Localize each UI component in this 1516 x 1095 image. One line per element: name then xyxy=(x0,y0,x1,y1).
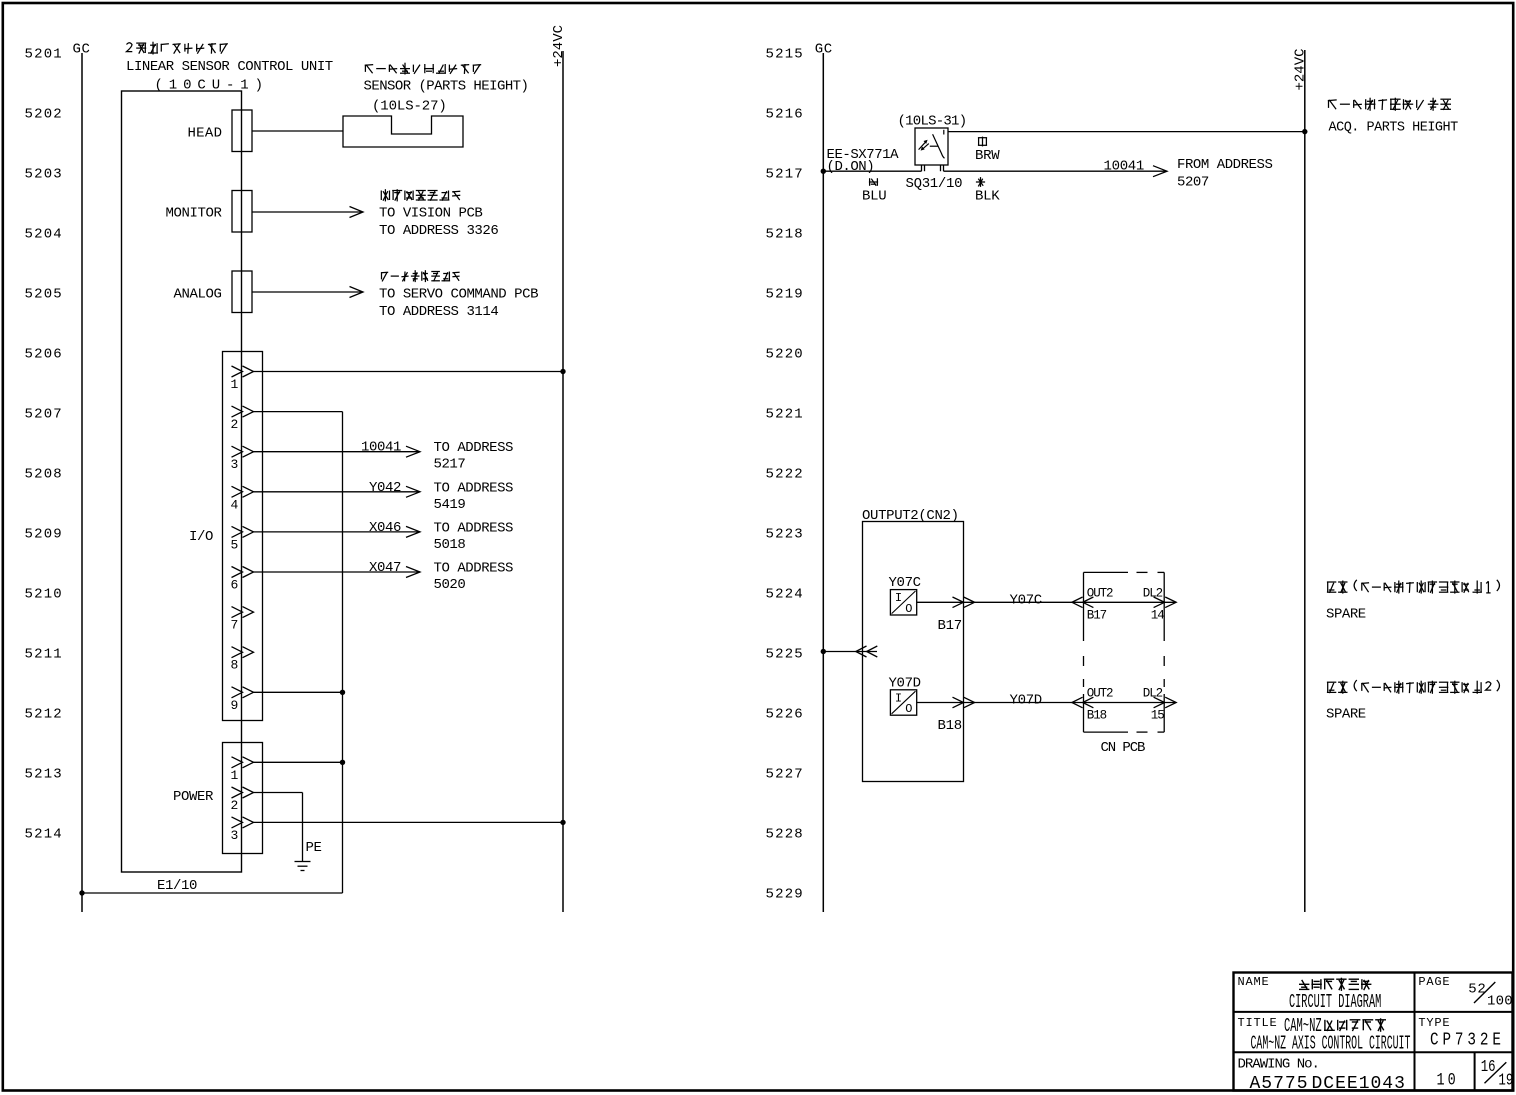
svg-text:10041: 10041 xyxy=(1104,158,1145,174)
label TO ADDRESS 3114 xyxy=(379,304,498,320)
label SPARE (Y07D) xyxy=(1326,707,1366,723)
wire I/O pin1 to +24VC xyxy=(254,371,564,373)
svg-text:5: 5 xyxy=(231,537,239,552)
svg-text:5222: 5222 xyxy=(766,467,804,483)
svg-text:LINEAR SENSOR CONTROL UNIT: LINEAR SENSOR CONTROL UNIT xyxy=(126,59,333,75)
label SPARE (Y07C) xyxy=(1326,606,1366,622)
svg-text:5018: 5018 xyxy=(434,537,466,553)
wire GC bus left vertical xyxy=(81,53,83,912)
svg-text:Y07C: Y07C xyxy=(1010,592,1042,608)
pin number 2 label (POWER) xyxy=(231,798,239,813)
label DCEE1043 part2 xyxy=(1312,1074,1406,1094)
svg-text:MONITOR: MONITOR xyxy=(165,206,222,222)
label ACQ. PARTS HEIGHT xyxy=(1329,121,1459,136)
label spare signal Y07D (JP) xyxy=(1327,680,1500,694)
svg-text:5209: 5209 xyxy=(25,527,63,543)
svg-text:5210: 5210 xyxy=(25,587,63,603)
ground PE symbol xyxy=(295,862,311,871)
pin 3 chevron of I/O connector xyxy=(232,446,254,457)
wire +24VC bus right vertical xyxy=(1304,50,1306,912)
label CIRCUIT DIAGRAM xyxy=(1289,991,1381,1013)
svg-text:A5775: A5775 xyxy=(1250,1074,1309,1094)
svg-text:Y042: Y042 xyxy=(369,480,401,496)
svg-text:4: 4 xyxy=(231,497,239,512)
svg-text:FROM ADDRESS: FROM ADDRESS xyxy=(1177,157,1272,173)
pin number 4 label (I/O) xyxy=(231,497,239,512)
svg-text:5204: 5204 xyxy=(25,227,63,243)
label 10041 (right) xyxy=(1104,158,1145,174)
svg-text:19: 19 xyxy=(1498,1072,1513,1090)
label X047 xyxy=(369,560,401,576)
junction dot sensor wire at GC xyxy=(821,169,826,174)
node GC (right) label xyxy=(815,42,833,58)
pin 3 chevron of POWER connector xyxy=(232,817,254,828)
pin chevron CN PCB B18 (<<) xyxy=(1072,697,1094,708)
label TO VISION PCB xyxy=(379,206,482,222)
module CN PCB dashed box xyxy=(1084,572,1165,732)
label TO ADDRESS (pin6) xyxy=(434,561,514,577)
label black (JP) xyxy=(976,177,985,187)
label B18 (OUTPUT2 pin) xyxy=(938,718,962,734)
label B17 (OUTPUT2 pin) xyxy=(938,618,962,634)
wire MONITOR out xyxy=(252,211,362,213)
svg-text:10041: 10041 xyxy=(361,440,401,456)
junction dot POWER pin1 xyxy=(340,760,345,765)
svg-text:2: 2 xyxy=(231,798,239,813)
svg-text:I: I xyxy=(895,691,902,705)
svg-text:5225: 5225 xyxy=(766,647,804,663)
label B17 (CN PCB pin) xyxy=(1087,608,1107,622)
svg-text:(10LS-31): (10LS-31) xyxy=(898,114,967,130)
label vision pcb (JP) xyxy=(381,189,460,201)
label PAGE xyxy=(1418,975,1450,989)
svg-text:DL2: DL2 xyxy=(1143,586,1163,600)
svg-text:PAGE: PAGE xyxy=(1418,975,1450,989)
svg-text:5227: 5227 xyxy=(766,767,804,783)
pin foot left of sensor xyxy=(922,165,925,171)
label 10041 xyxy=(361,440,401,456)
label OUT2 (Y07C) xyxy=(1087,586,1113,600)
svg-text:PE: PE xyxy=(306,840,322,856)
pin chevron CN PCB B17 (<<) xyxy=(1072,597,1094,608)
label SENSOR (PARTS HEIGHT) xyxy=(364,79,529,95)
svg-text:TITLE: TITLE xyxy=(1238,1016,1278,1030)
label spare signal Y07C (JP) xyxy=(1327,580,1500,594)
label 5020 (pin6) xyxy=(434,577,466,593)
svg-text:5223: 5223 xyxy=(766,527,804,543)
svg-text:14: 14 xyxy=(1151,608,1164,622)
label 5217 (pin3) xyxy=(434,457,466,473)
svg-text:3: 3 xyxy=(231,457,239,472)
svg-text:O: O xyxy=(905,602,912,616)
label CP732E xyxy=(1430,1029,1505,1050)
label BLU xyxy=(862,189,886,205)
svg-text:OUT2: OUT2 xyxy=(1087,687,1113,701)
svg-text:ANALOG: ANALOG xyxy=(173,287,221,303)
slash rev xyxy=(1485,1062,1507,1083)
title block frame xyxy=(1234,973,1513,1091)
label brown (JP) xyxy=(978,137,987,147)
pin 7 chevron of I/O connector xyxy=(232,607,254,618)
svg-text:(D.ON): (D.ON) xyxy=(827,159,875,175)
label FROM ADDRESS xyxy=(1177,157,1272,173)
svg-text:SENSOR (PARTS HEIGHT): SENSOR (PARTS HEIGHT) xyxy=(364,79,529,95)
label rev 16 xyxy=(1481,1059,1496,1077)
label B18 (CN PCB pin) xyxy=(1087,709,1107,723)
wire sensor right pin to 10041 arrow xyxy=(944,170,1168,172)
label 5207 xyxy=(1177,175,1209,191)
pin number 3 label (I/O) xyxy=(231,457,239,472)
label TO ADDRESS 3326 xyxy=(379,223,498,239)
label TITLE xyxy=(1238,1016,1278,1030)
arrow 10041 to address xyxy=(1153,166,1167,177)
svg-text:5224: 5224 xyxy=(766,587,804,603)
label Y042 xyxy=(369,480,401,496)
wire E1/10 vertical xyxy=(342,412,344,893)
svg-text:NAME: NAME xyxy=(1238,975,1270,989)
svg-text:(10LS-27): (10LS-27) xyxy=(372,99,447,115)
label 14 (CN PCB pin) xyxy=(1151,608,1164,622)
svg-text:OUT2: OUT2 xyxy=(1087,586,1113,600)
svg-text:CN PCB: CN PCB xyxy=(1101,740,1146,756)
right rung line numbers 5215-5229 xyxy=(766,47,804,903)
wire Y07D to CN PCB xyxy=(917,702,1176,704)
svg-text:I/O: I/O xyxy=(189,529,213,545)
label TO ADDRESS (pin4) xyxy=(434,480,514,496)
title kanji axis control circuit (JP) xyxy=(1324,1018,1386,1032)
wire I/O pin4 signal Y042 xyxy=(254,491,421,493)
arrow ANALOG out xyxy=(350,287,364,298)
svg-text:TO ADDRESS 3326: TO ADDRESS 3326 xyxy=(379,223,498,239)
svg-text:X047: X047 xyxy=(369,560,401,576)
svg-text:TO ADDRESS: TO ADDRESS xyxy=(434,561,514,577)
wire +24VC bus left vertical xyxy=(562,51,564,912)
wire I/O pin5 signal X046 xyxy=(254,531,421,533)
label MONITOR xyxy=(165,206,222,222)
junction dot E1/10 at GC xyxy=(79,890,84,895)
label 2-jigen linear sensor (JP) xyxy=(127,42,228,55)
svg-text:5221: 5221 xyxy=(766,407,804,423)
pin chevron CN PCB 15 (>>) xyxy=(1154,697,1177,708)
svg-text:7: 7 xyxy=(231,618,239,633)
junction dot OUTPUT2 feed at GC xyxy=(821,649,826,654)
svg-text:6: 6 xyxy=(231,578,239,593)
label EE-SX771A xyxy=(827,147,900,163)
label (10CU-1) xyxy=(155,77,269,93)
svg-text:2: 2 xyxy=(231,417,239,432)
label A5775 part1 xyxy=(1250,1074,1309,1094)
svg-text:CAM~NZ AXIS CONTROL CIRCUIT: CAM~NZ AXIS CONTROL CIRCUIT xyxy=(1251,1032,1411,1055)
wire Y07C to CN PCB xyxy=(917,601,1176,603)
I/O element Y07C label xyxy=(889,575,921,591)
svg-text:CIRCUIT DIAGRAM: CIRCUIT DIAGRAM xyxy=(1289,991,1381,1013)
label SQ31/10 xyxy=(906,176,963,192)
svg-text:5211: 5211 xyxy=(25,647,63,663)
svg-text:SQ31/10: SQ31/10 xyxy=(906,176,963,192)
label LINEAR SENSOR CONTROL UNIT xyxy=(126,59,333,75)
I/O element Y07D square xyxy=(890,690,916,716)
svg-text:9: 9 xyxy=(231,698,239,713)
connector I/O box xyxy=(223,352,263,721)
pin 1 chevron of POWER connector xyxy=(232,757,254,768)
svg-text:5214: 5214 xyxy=(25,827,63,843)
svg-text:Y07C: Y07C xyxy=(889,575,921,591)
wire E1/10 horizontal to GC xyxy=(82,892,343,894)
wire I/O pin6 signal X047 xyxy=(254,571,421,573)
wire POWER pin3 to +24VC xyxy=(254,821,564,823)
label NAME xyxy=(1238,975,1270,989)
svg-text:+24VC: +24VC xyxy=(551,25,567,67)
svg-text:BRW: BRW xyxy=(975,148,1000,164)
pin chevron Y07D out of OUTPUT2 (>>) xyxy=(953,697,975,708)
svg-text:DRAWING No.: DRAWING No. xyxy=(1238,1057,1319,1073)
svg-text:BLK: BLK xyxy=(975,189,1000,205)
pin number 6 label (I/O) xyxy=(231,578,239,593)
svg-text:TYPE: TYPE xyxy=(1418,1016,1450,1030)
left rung line numbers 5201-5214 xyxy=(25,47,63,843)
svg-text:5202: 5202 xyxy=(25,107,63,123)
svg-text:(10CU-1): (10CU-1) xyxy=(155,77,269,93)
svg-text:TO ADDRESS 3114: TO ADDRESS 3114 xyxy=(379,304,498,320)
label DRAWING No. xyxy=(1238,1057,1319,1073)
svg-text:5216: 5216 xyxy=(766,107,804,123)
label 15 (CN PCB pin) xyxy=(1151,709,1164,723)
label parts-thickness sensor (JP) xyxy=(365,63,481,75)
label rev 19 xyxy=(1498,1072,1513,1090)
wire POWER pin2 to PE ground xyxy=(254,793,303,862)
label 5419 (pin4) xyxy=(434,497,466,513)
slash page xyxy=(1474,982,1495,1003)
arrow MONITOR out xyxy=(350,207,364,218)
label PE xyxy=(306,840,322,856)
unit 10CU-1 linear sensor control unit box xyxy=(122,91,242,872)
wire HEAD to sensor xyxy=(252,130,343,132)
arrow X047 xyxy=(406,567,420,578)
net +24VC (left) label xyxy=(551,25,567,67)
pin number 1 label (POWER) xyxy=(231,768,239,783)
svg-text:1: 1 xyxy=(231,377,239,392)
svg-text:B18: B18 xyxy=(938,718,962,734)
pin 2 chevron of POWER connector xyxy=(232,787,254,798)
label BRW xyxy=(975,148,1000,164)
svg-text:HEAD: HEAD xyxy=(187,126,222,142)
svg-text:B17: B17 xyxy=(938,618,962,634)
svg-text:5220: 5220 xyxy=(766,347,804,363)
pin 8 chevron of I/O connector xyxy=(232,647,254,658)
svg-text:5229: 5229 xyxy=(766,887,804,903)
pin number 8 label (I/O) xyxy=(231,658,239,673)
label Y07C wire xyxy=(1010,592,1042,608)
wire I/O pin9 to E1/10 net xyxy=(254,691,343,693)
label sheet 10 xyxy=(1437,1070,1459,1090)
svg-text:I: I xyxy=(895,591,902,605)
svg-text:1: 1 xyxy=(231,768,239,783)
svg-text:5205: 5205 xyxy=(25,287,63,303)
svg-text:5207: 5207 xyxy=(1177,175,1209,191)
svg-text:5419: 5419 xyxy=(434,497,466,513)
node GC (left) label xyxy=(73,42,91,58)
svg-text:5217: 5217 xyxy=(434,457,466,473)
svg-text:5218: 5218 xyxy=(766,227,804,243)
pin number 2 label (I/O) xyxy=(231,417,239,432)
svg-text:5212: 5212 xyxy=(25,707,63,723)
pin number 9 label (I/O) xyxy=(231,698,239,713)
label TO SERVO COMMAND PCB xyxy=(379,287,538,303)
svg-text:Y07D: Y07D xyxy=(1010,693,1042,709)
pin foot right of sensor xyxy=(941,165,944,171)
svg-text:5219: 5219 xyxy=(766,287,804,303)
sensor SQ31 10LS-31 box xyxy=(915,128,948,165)
label TO ADDRESS (pin5) xyxy=(434,520,514,536)
wire GC to OUTPUT2 box xyxy=(823,651,877,653)
sensor 10LS-27 body (notched box) xyxy=(343,116,463,147)
svg-text:X046: X046 xyxy=(369,520,401,536)
label OUT2 (Y07D) xyxy=(1087,687,1113,701)
pin 5 chevron of I/O connector xyxy=(232,526,254,537)
pin chevron OUTPUT2 input (<<) xyxy=(856,646,878,657)
svg-text:ACQ. PARTS HEIGHT: ACQ. PARTS HEIGHT xyxy=(1329,121,1459,136)
label ANALOG xyxy=(173,287,221,303)
svg-text:5020: 5020 xyxy=(434,577,466,593)
svg-text:5228: 5228 xyxy=(766,827,804,843)
svg-text:TO ADDRESS: TO ADDRESS xyxy=(434,440,514,456)
connector MONITOR box xyxy=(232,191,252,233)
svg-text:3: 3 xyxy=(231,828,239,843)
svg-text:5217: 5217 xyxy=(766,167,804,183)
svg-text:SPARE: SPARE xyxy=(1326,606,1366,622)
junction dot sensor top at +24VC xyxy=(1302,129,1307,134)
connector HEAD box xyxy=(232,110,252,152)
pin 2 chevron of I/O connector xyxy=(232,406,254,417)
svg-text:5203: 5203 xyxy=(25,167,63,183)
label (10LS-31) xyxy=(898,114,967,130)
svg-text:CP732E: CP732E xyxy=(1430,1029,1505,1050)
label (D.ON) xyxy=(827,159,875,175)
wire sensor top to +24VC xyxy=(948,131,1305,133)
svg-text:TO ADDRESS: TO ADDRESS xyxy=(434,520,514,536)
connector ANALOG box xyxy=(232,271,252,313)
sensor symbol optical (arrows + mirror) xyxy=(919,130,945,158)
pin number 7 label (I/O) xyxy=(231,618,239,633)
label page total 100 xyxy=(1487,994,1513,1010)
wire I/O pin3 signal 10041 xyxy=(254,451,421,453)
label servo command pcb (JP) xyxy=(381,270,460,282)
svg-text:DCEE1043: DCEE1043 xyxy=(1312,1074,1406,1094)
label X046 xyxy=(369,520,401,536)
label Y07D wire xyxy=(1010,693,1042,709)
svg-text:SPARE: SPARE xyxy=(1326,707,1366,723)
pin number 3 label (POWER) xyxy=(231,828,239,843)
label acq parts height (JP) xyxy=(1328,98,1451,111)
label I/O xyxy=(189,529,213,545)
label E1/10 xyxy=(157,878,197,894)
arrow X046 xyxy=(406,526,420,537)
pin 6 chevron of I/O connector xyxy=(232,567,254,578)
svg-text:5215: 5215 xyxy=(766,47,804,63)
pin number 5 label (I/O) xyxy=(231,537,239,552)
pin chevron Y07C out of OUTPUT2 (>>) xyxy=(953,597,975,608)
svg-text:POWER: POWER xyxy=(173,789,214,805)
I/O element Y07C square xyxy=(890,590,916,616)
arrow 10041 xyxy=(406,446,420,457)
wire GC bus right vertical xyxy=(822,53,824,912)
wire ANALOG out xyxy=(252,291,362,293)
label TYPE xyxy=(1418,1016,1450,1030)
label TO ADDRESS (pin3) xyxy=(434,440,514,456)
svg-text:TO VISION PCB: TO VISION PCB xyxy=(379,206,482,222)
label DL2 (Y07C) xyxy=(1143,586,1163,600)
svg-text:5226: 5226 xyxy=(766,707,804,723)
svg-text:5206: 5206 xyxy=(25,347,63,363)
svg-text:TO SERVO COMMAND PCB: TO SERVO COMMAND PCB xyxy=(379,287,538,303)
svg-text:E1/10: E1/10 xyxy=(157,878,197,894)
label blue (JP) xyxy=(869,178,878,186)
junction dot POWER pin3 at +24VC xyxy=(560,820,565,825)
svg-text:10: 10 xyxy=(1437,1070,1459,1090)
svg-text:8: 8 xyxy=(231,658,239,673)
pin chevron CN PCB 14 (>>) xyxy=(1154,597,1177,608)
wire GC to sensor left pin xyxy=(823,170,921,172)
wire I/O pin2 to E1/10 net xyxy=(254,411,343,413)
svg-text:5207: 5207 xyxy=(25,407,63,423)
title name kanji (JP) xyxy=(1299,978,1371,991)
svg-text:100: 100 xyxy=(1487,994,1513,1010)
junction dot I/O pin9 xyxy=(340,690,345,695)
svg-text:B17: B17 xyxy=(1087,608,1107,622)
svg-text:B18: B18 xyxy=(1087,709,1107,723)
pin 4 chevron of I/O connector xyxy=(232,486,254,497)
arrow Y042 xyxy=(406,486,420,497)
svg-text:+24VC: +24VC xyxy=(1293,48,1309,90)
label BLK xyxy=(975,189,1000,205)
svg-text:52: 52 xyxy=(1468,982,1486,998)
svg-text:15: 15 xyxy=(1151,709,1164,723)
connector POWER box xyxy=(223,743,263,854)
svg-text:O: O xyxy=(905,702,912,716)
svg-text:5213: 5213 xyxy=(25,767,63,783)
label CAM~NZ AXIS CONTROL CIRCUIT xyxy=(1251,1032,1411,1055)
label (10LS-27) xyxy=(372,99,447,115)
junction dot I/O pin1 at +24VC xyxy=(560,369,565,374)
svg-text:DL2: DL2 xyxy=(1143,687,1163,701)
wire POWER pin1 to E1/10 net xyxy=(254,761,343,763)
svg-text:Y07D: Y07D xyxy=(889,676,921,692)
label HEAD xyxy=(187,126,222,142)
pin number 1 label (I/O) xyxy=(231,377,239,392)
svg-text:BLU: BLU xyxy=(862,189,886,205)
title CAM~NZ axis (JP) xyxy=(1284,1015,1322,1037)
label CN PCB xyxy=(1101,740,1146,756)
net +24VC (right) label xyxy=(1293,48,1309,90)
label 5018 (pin5) xyxy=(434,537,466,553)
label DL2 (Y07D) xyxy=(1143,687,1163,701)
pin 1 chevron of I/O connector xyxy=(232,366,254,377)
svg-text:5208: 5208 xyxy=(25,467,63,483)
label page number 52 xyxy=(1468,982,1486,998)
I/O element Y07D label xyxy=(889,676,921,692)
svg-text:TO ADDRESS: TO ADDRESS xyxy=(434,480,514,496)
label OUTPUT2(CN2) xyxy=(862,508,959,524)
label POWER xyxy=(173,789,214,805)
svg-text:5201: 5201 xyxy=(25,47,63,63)
pin 9 chevron of I/O connector xyxy=(232,687,254,698)
connector OUTPUT2 CN2 box xyxy=(863,522,964,782)
